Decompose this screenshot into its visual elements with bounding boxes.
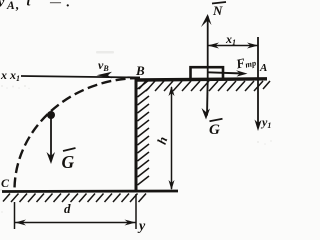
gravity G below ground (block) (206, 80, 209, 116)
svg-text:y: y (137, 219, 146, 234)
svg-text:A: A (6, 0, 15, 12)
ground hatching right of B (139, 81, 270, 91)
label N (212, 2, 226, 4)
svg-text:B: B (135, 63, 145, 78)
gravity vector G on trajectory (50, 118, 52, 160)
svg-text:N: N (212, 3, 223, 18)
axis y1 vertical line at A (257, 37, 259, 127)
faint scan specks (0, 51, 272, 213)
svg-text:d: d (64, 201, 71, 216)
svg-text:G: G (62, 152, 75, 172)
friction force arrow Fтр (208, 72, 243, 73)
mass point on trajectory (47, 111, 55, 119)
block on table (191, 67, 224, 79)
svg-text:A: A (259, 62, 267, 74)
trajectory dashed curve B to C (15, 78, 141, 190)
svg-text:—: — (49, 0, 62, 9)
wall edge below B (135, 78, 138, 191)
label G (trajectory) (63, 148, 76, 151)
svg-text:G: G (209, 122, 220, 138)
dimension d extension lines (14, 202, 16, 229)
dimension d line (15, 222, 136, 224)
lower ground hatching (3, 194, 146, 203)
svg-text:.: . (66, 0, 70, 11)
dimension h line (171, 87, 173, 189)
velocity arrowhead vB on axis (97, 72, 113, 78)
dimension x1 top right (208, 45, 258, 47)
svg-text:,: , (15, 0, 19, 12)
normal force N line through block (207, 16, 209, 80)
x-axis line (table level, left of B) (21, 76, 140, 78)
label G (block) (210, 119, 223, 122)
ground surface line right of B (137, 79, 267, 80)
lower ground line at C level (2, 190, 178, 193)
wall hatching (138, 80, 150, 185)
svg-text:C: C (1, 176, 10, 190)
cropped caption text fragment top-left (0, 0, 70, 12)
